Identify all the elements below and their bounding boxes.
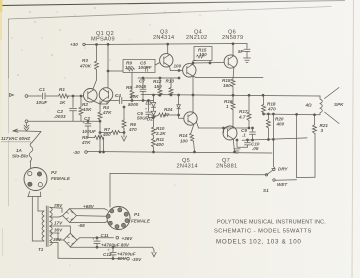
wire Q5 collector riser — [192, 95, 194, 113]
capacitor C12 — [112, 247, 114, 252]
capacitor C8 — [246, 44, 248, 49]
wire C2 stub — [72, 96, 74, 108]
capacitor C10 below rail — [247, 140, 249, 142]
wire -30V row — [57, 243, 59, 259]
capacitor C5 — [145, 67, 147, 72]
svg-text:400: 400 — [276, 122, 285, 127]
resistor R14 — [191, 124, 194, 133]
capacitor C9 to rail — [252, 128, 254, 131]
resistor R3 — [95, 61, 99, 70]
bottom rail y=152 — [87, 152, 272, 154]
wire fuse to P2 — [30, 162, 32, 168]
resistor R10 — [152, 127, 156, 136]
resistor R18 vertical — [263, 95, 265, 104]
svg-text:+: + — [115, 94, 118, 99]
ground bars output — [236, 140, 238, 147]
resistor R6 — [122, 120, 126, 128]
svg-text:100: 100 — [125, 65, 133, 70]
svg-text:+: + — [107, 248, 110, 253]
svg-text:-68: -68 — [78, 223, 85, 228]
svg-text:+30: +30 — [70, 42, 78, 47]
svg-text:17V: 17V — [54, 221, 63, 226]
svg-text:36V: 36V — [54, 228, 63, 233]
resistor R4 — [98, 112, 102, 120]
svg-text:100: 100 — [174, 64, 182, 69]
svg-text:2N4314: 2N4314 — [153, 35, 174, 41]
scan top edge dark line — [0, 0, 1, 1]
svg-text:FEMALE: FEMALE — [131, 219, 151, 224]
wire Q4 collector to Q6 base — [193, 62, 224, 65]
fuse F1 — [29, 143, 33, 162]
capacitor C1 — [42, 93, 44, 99]
wire Q4 collector riser — [192, 61, 194, 65]
ground C8 — [244, 57, 251, 59]
svg-text:T1: T1 — [38, 247, 44, 252]
svg-text:+68V: +68V — [83, 204, 95, 209]
capacitor C4 — [119, 97, 121, 104]
svg-text:2N4314: 2N4314 — [177, 164, 198, 170]
wire box to Q2 collector — [108, 70, 123, 72]
svg-text:10K: 10K — [83, 107, 92, 112]
svg-text:+4700uF 80V: +4700uF 80V — [101, 242, 130, 247]
resistor R12 — [159, 78, 161, 89]
svg-text:MPSA09: MPSA09 — [91, 37, 115, 43]
wire mid to ground — [69, 246, 71, 248]
svg-text:P2: P2 — [51, 170, 57, 175]
wires P2 to transformer collar — [28, 192, 29, 197]
svg-text:47K: 47K — [102, 110, 112, 115]
svg-text:R17: R17 — [239, 109, 248, 114]
resistor R7 — [112, 131, 120, 135]
svg-text:+36V: +36V — [122, 236, 134, 241]
pin — [115, 225, 119, 229]
wire R1 to Q1 base — [68, 95, 84, 97]
speaker rail y=95 — [141, 95, 320, 97]
wire emitters join — [94, 101, 101, 104]
wire R7 row — [100, 132, 112, 134]
svg-text:WET: WET — [277, 182, 288, 187]
resistor box R15 — [194, 47, 212, 61]
resistor R17 — [248, 95, 250, 112]
lighter top-right corner of paper — [150, 0, 360, 140]
transformer core — [45, 206, 47, 247]
pin — [38, 183, 42, 187]
svg-text:C1: C1 — [39, 87, 45, 92]
transformer T1 primary — [42, 211, 44, 241]
left page shadow mark — [2, 228, 4, 256]
wire bias row y=78 — [138, 77, 179, 79]
svg-text:R24: R24 — [164, 107, 173, 112]
svg-text:P1: P1 — [134, 212, 140, 217]
wire speaker drop wet — [296, 114, 298, 177]
output rail y=140 — [242, 138, 307, 140]
svg-text:470: 470 — [128, 127, 137, 132]
svg-text:100UF: 100UF — [82, 129, 96, 134]
wire emitter bus y=100.5 — [106, 101, 108, 104]
svg-text:10K: 10K — [130, 94, 139, 99]
wire input to C1 — [28, 95, 42, 97]
svg-text:R3: R3 — [82, 58, 88, 63]
diode D1 — [153, 95, 155, 102]
resistor R2 — [80, 96, 82, 107]
svg-text:S1: S1 — [263, 188, 269, 193]
pin — [108, 221, 112, 225]
pin — [118, 208, 122, 212]
wire Q1 collector riser — [96, 45, 98, 62]
svg-text:SCHEMATIC - MODEL 55WATTS: SCHEMATIC - MODEL 55WATTS — [214, 229, 312, 235]
wires bridge B2 — [58, 232, 59, 234]
transistor Q5 — [184, 112, 197, 125]
wire Q5 to output bases y=128 — [196, 122, 198, 129]
node rail junctions — [96, 44, 98, 46]
resistor R11 — [152, 139, 156, 148]
resistor R1 — [59, 94, 69, 98]
svg-text:D2: D2 — [147, 117, 153, 122]
node +30 terminal — [83, 43, 85, 45]
svg-text:-30: -30 — [73, 150, 80, 155]
ground arrow R6 — [122, 136, 127, 141]
pin — [106, 214, 110, 218]
svg-text:5000: 5000 — [128, 102, 139, 107]
svg-text:SPK: SPK — [334, 102, 344, 107]
svg-text:.0033: .0033 — [54, 114, 66, 119]
117VAC feed arrow — [14, 130, 41, 133]
capacitor C7 — [142, 78, 144, 89]
transformer T1 secondary — [50, 207, 52, 245]
ground arrow at input — [26, 123, 28, 126]
capacitor C3 — [87, 120, 89, 122]
pin — [122, 223, 126, 227]
wire P1 riser to switch rail — [109, 174, 111, 208]
resistor R24 row — [154, 115, 159, 118]
svg-text:2N5881: 2N5881 — [216, 164, 237, 170]
svg-text:117VAC 60HZ: 117VAC 60HZ — [1, 136, 30, 141]
svg-text:C12: C12 — [103, 252, 112, 257]
svg-text:10UF: 10UF — [36, 100, 47, 105]
svg-text:47: 47 — [163, 113, 170, 118]
pin — [28, 172, 32, 176]
connector P2 — [24, 168, 47, 191]
frame border top — [9, 12, 181, 19]
svg-text:MODELS 102, 103 & 100: MODELS 102, 103 & 100 — [216, 239, 302, 246]
wire to fuse — [32, 132, 41, 143]
yellow left page edge — [0, 0, 2, 12]
svg-text:+: + — [92, 237, 95, 242]
resistor R13 — [170, 78, 172, 88]
wire Q7 base stub — [223, 128, 225, 133]
svg-text:100: 100 — [180, 139, 188, 144]
svg-text:400: 400 — [155, 142, 164, 147]
svg-text:50V: 50V — [118, 256, 127, 261]
svg-text:400: 400 — [102, 132, 111, 137]
resistor R16 — [232, 95, 234, 102]
pin — [124, 212, 128, 216]
diode column to Q5 — [178, 95, 180, 105]
svg-text:470: 470 — [267, 107, 276, 112]
svg-text:100PF: 100PF — [138, 65, 152, 70]
svg-text:R8: R8 — [126, 85, 132, 90]
wire Q2 collector riser — [107, 44, 109, 88]
svg-text:5P: 5P — [238, 49, 245, 54]
wire Q7 emitter — [233, 139, 234, 152]
svg-text:150: 150 — [154, 84, 162, 89]
svg-text:R1: R1 — [59, 87, 65, 92]
svg-text:36V: 36V — [53, 237, 62, 242]
connector P1 — [107, 207, 130, 230]
capacitor C6 — [148, 101, 150, 112]
svg-text:+: + — [145, 107, 148, 112]
resistor R20 vertical — [267, 114, 269, 120]
svg-text:78V: 78V — [54, 203, 63, 208]
svg-text:R13: R13 — [166, 79, 175, 84]
diode D2 — [153, 107, 155, 111]
paper speckles — [11, 7, 228, 265]
svg-text:1A: 1A — [16, 148, 22, 153]
transistor Q7 — [223, 126, 237, 140]
svg-text:Slo-Blo: Slo-Blo — [12, 154, 28, 159]
svg-text:.05: .05 — [252, 146, 259, 151]
svg-text:C7: C7 — [139, 79, 145, 84]
svg-text:3: 3 — [321, 128, 324, 133]
svg-text:4.7: 4.7 — [238, 115, 246, 120]
resistor R9 — [127, 68, 135, 71]
speaker horn — [325, 88, 340, 99]
svg-text:1: 1 — [226, 104, 229, 109]
pin — [37, 172, 41, 176]
paper right edge — [352, 0, 354, 278]
frame border left — [8, 19, 10, 78]
svg-text:DRY: DRY — [278, 167, 289, 172]
svg-text:POLYTONE MUSICAL INSTRUMENT IN: POLYTONE MUSICAL INSTRUMENT INC. — [217, 220, 326, 226]
feedback box R9 C5 — [123, 60, 155, 73]
wire Q3 collector stub — [167, 44, 169, 54]
svg-text:2.2K: 2.2K — [155, 131, 166, 136]
svg-text:C11: C11 — [101, 233, 110, 238]
svg-text:FEMALE: FEMALE — [51, 176, 71, 181]
svg-text:-30V: -30V — [132, 257, 143, 262]
svg-text:+: + — [83, 120, 86, 125]
input terminal — [10, 94, 14, 97]
wire Q6 collector riser — [232, 44, 234, 56]
secondary taps — [50, 207, 59, 210]
svg-text:2N5879: 2N5879 — [222, 35, 243, 41]
wire Q4 emitter bus — [193, 76, 196, 78]
svg-text:.1: .1 — [242, 133, 246, 138]
frame border left lower faint — [8, 140, 10, 206]
transistor Q4 — [183, 64, 196, 77]
capacitor C11 — [96, 238, 98, 241]
node R2 junction — [80, 95, 82, 97]
transistor Q6 — [224, 55, 237, 68]
transistor Q2 — [99, 88, 113, 102]
svg-text:100: 100 — [199, 52, 207, 57]
transistor Q3 — [160, 54, 173, 67]
pin — [110, 209, 114, 213]
+30V rail — [85, 44, 247, 45]
wire +36V tap — [116, 236, 119, 239]
wire Q3 emitter to Q4 base — [169, 66, 172, 70]
wire box to Q3 — [155, 63, 160, 66]
svg-text:D1: D1 — [146, 101, 152, 106]
ground wire lower — [25, 120, 28, 123]
svg-text:4Ω: 4Ω — [305, 103, 313, 108]
bridge rectifier B2 — [64, 233, 77, 247]
wire C1 to R1 — [46, 95, 59, 97]
resistor R15e emitter — [232, 67, 235, 79]
wire dry riser — [272, 114, 274, 166]
wire speaker bottom y=114 — [264, 113, 315, 116]
resistor R21 — [314, 115, 316, 125]
transistor Q1 — [84, 89, 98, 103]
speaker coil — [320, 96, 322, 115]
resistor R8 feedback leg — [131, 73, 133, 91]
svg-text:470K: 470K — [79, 64, 92, 69]
wires bridge B1 — [59, 207, 62, 209]
node C2 junction — [72, 95, 74, 97]
svg-text:R14: R14 — [179, 133, 188, 138]
bridge rectifier B1 — [63, 209, 77, 223]
capacitor C2 — [70, 108, 77, 110]
ground arrow power mid — [152, 250, 156, 257]
resistor R5 — [88, 137, 95, 139]
pin — [125, 219, 129, 223]
svg-text:.0045: .0045 — [135, 84, 147, 89]
pin — [28, 182, 32, 186]
svg-text:1K: 1K — [60, 100, 67, 105]
svg-text:47K: 47K — [81, 140, 91, 145]
switch S1 — [110, 174, 266, 175]
svg-text:2N2102: 2N2102 — [186, 35, 207, 41]
svg-text:160: 160 — [223, 83, 231, 88]
